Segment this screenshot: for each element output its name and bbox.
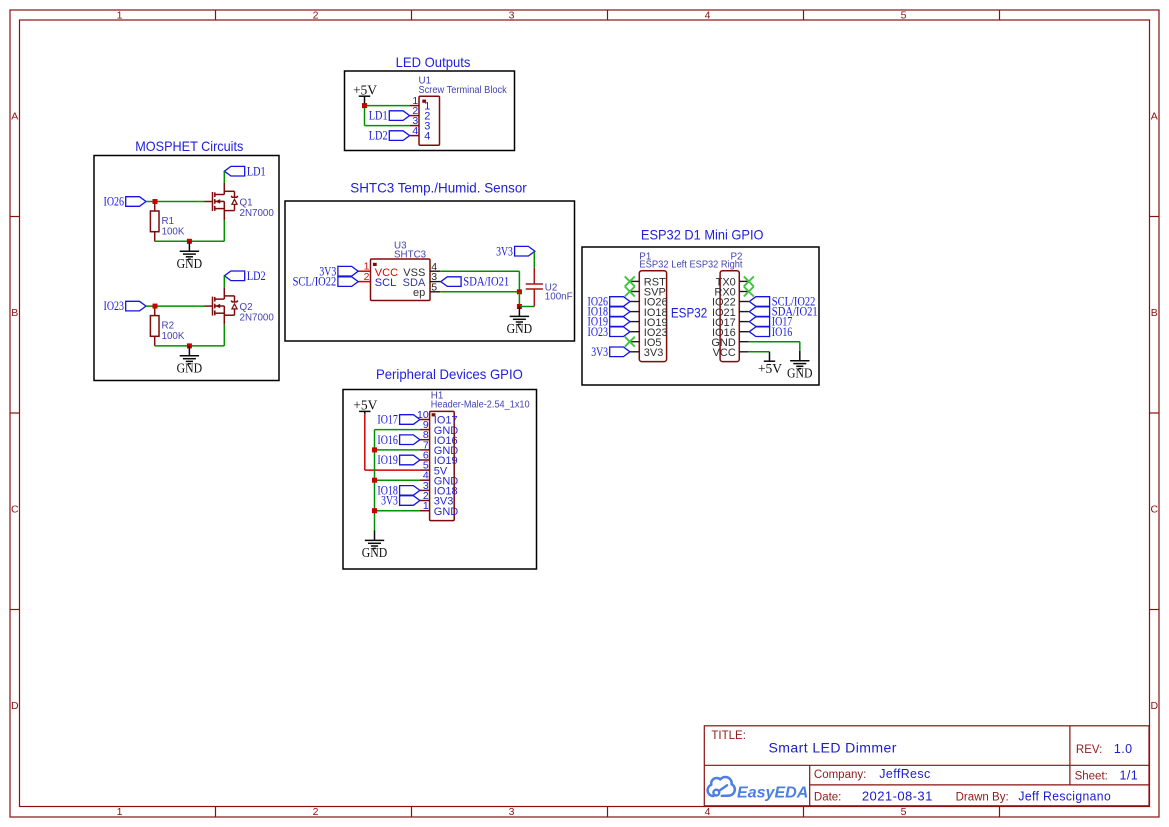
junction GND pin1 (372, 508, 377, 513)
section box Peripheral Devices GPIO (343, 390, 537, 570)
screw terminal U1 body (419, 96, 440, 145)
svg-text:LD1: LD1 (369, 109, 388, 123)
no-connect flags P2 TX0 RX0 (744, 276, 754, 296)
svg-text:5: 5 (901, 806, 907, 818)
rev label (1076, 744, 1102, 756)
svg-text:2N7000: 2N7000 (240, 313, 275, 324)
svg-text:ESP32 D1 Mini GPIO: ESP32 D1 Mini GPIO (641, 226, 764, 242)
U3 pin 1 VCC (358, 260, 398, 278)
net flag IO17 to H1 pin10 (377, 413, 420, 427)
svg-text:C: C (11, 503, 19, 515)
net flag IO23 (104, 299, 147, 313)
svg-text:100K: 100K (162, 227, 185, 238)
svg-text:Sheet:: Sheet: (1075, 770, 1108, 782)
svg-text:LD2: LD2 (247, 269, 266, 283)
power +5V (ESP32 VCC) (758, 352, 782, 376)
P1 pins (630, 277, 668, 359)
U3 pin 3 SDA (403, 271, 441, 289)
net flag 3V3 to capacitor (496, 244, 535, 258)
wire ground node to capacitor (519, 306, 534, 308)
capacitor U2 100nF (526, 268, 573, 307)
title block row line 1 (704, 764, 1149, 766)
H1 pins 10..1 (417, 409, 458, 518)
svg-text:Peripheral Devices GPIO: Peripheral Devices GPIO (376, 366, 523, 382)
wire +5V to U1 pin1 (365, 105, 410, 107)
svg-text:2: 2 (364, 271, 370, 283)
net flag IO16 to P2 (749, 325, 792, 339)
svg-text:IO23: IO23 (588, 325, 609, 339)
sheet value (1120, 768, 1139, 782)
wire GND to H1 pin9 (375, 429, 420, 431)
title block logo cell divider (809, 765, 811, 806)
svg-text:3V3: 3V3 (644, 347, 664, 359)
wire IO26 to gate (146, 201, 205, 203)
wire R1 to source (155, 240, 225, 242)
wire GND to H1 pin4 (375, 479, 420, 481)
net flag IO18 to H1 pin3 (377, 484, 420, 498)
gate pin Q2 (205, 305, 213, 307)
wire source down (223, 220, 225, 241)
svg-text:SHTC3 Temp./Humid. Sensor: SHTC3 Temp./Humid. Sensor (350, 180, 527, 196)
svg-text:+5V: +5V (353, 83, 377, 98)
svg-text:IO16: IO16 (772, 325, 793, 339)
svg-text:3: 3 (509, 806, 515, 818)
section title LED Outputs (396, 54, 471, 70)
svg-text:Date:: Date: (814, 791, 842, 803)
svg-text:TITLE:: TITLE: (711, 730, 746, 742)
no-connect flags P1 RST SVP IO5 (625, 276, 635, 346)
wire ep right (440, 291, 519, 293)
net flag IO23 to P1 (588, 325, 631, 339)
svg-text:3: 3 (509, 10, 515, 22)
junction GND pin4 (372, 478, 377, 483)
svg-text:5: 5 (901, 10, 907, 22)
company value (879, 767, 930, 781)
svg-text:JeffResc: JeffResc (879, 767, 930, 781)
ground (507, 307, 533, 337)
svg-text:IO17: IO17 (377, 413, 398, 427)
net flag 3V3 to P1 (591, 345, 630, 359)
svg-text:IO19: IO19 (377, 453, 398, 467)
wire down to ground node (518, 292, 520, 307)
date label (814, 791, 842, 803)
wire GND bus vertical (374, 430, 376, 531)
header H1 body (430, 411, 455, 520)
net flag SDA/IO21 on U3 SDA (441, 275, 509, 289)
wire GND down (799, 342, 801, 351)
junction ep node (517, 289, 522, 294)
wire +5V down (red) (364, 414, 366, 471)
svg-text:3V3: 3V3 (591, 345, 608, 359)
svg-text:IO26: IO26 (104, 195, 125, 209)
wire 3V3 down to capacitor (533, 252, 535, 268)
svg-text:5: 5 (431, 281, 437, 293)
section box SHTC3 sensor (285, 201, 575, 341)
svg-text:ESP32 Right: ESP32 Right (690, 260, 743, 271)
transistor Q1 2N7000 (213, 183, 275, 220)
svg-text:EasyEDA: EasyEDA (737, 785, 808, 802)
svg-text:C: C (1151, 503, 1159, 515)
wire GND to H1 pin7 (375, 449, 420, 451)
section title Peripheral Devices GPIO (376, 366, 523, 382)
svg-text:Screw Terminal Block: Screw Terminal Block (419, 85, 507, 96)
U3 pin 4 VSS (403, 261, 440, 279)
junction ground node (187, 239, 192, 244)
wire R2 to source (155, 345, 225, 347)
net flag IO18 to P1 (588, 305, 631, 319)
svg-text:4: 4 (412, 125, 418, 137)
junction GND pin7 (372, 447, 377, 452)
svg-text:1: 1 (423, 500, 429, 512)
svg-text:VCC: VCC (713, 347, 736, 359)
svg-text:Q1: Q1 (240, 198, 253, 209)
wire +5V to H1 pin5 (red) (365, 469, 420, 471)
drawn by value (1018, 789, 1111, 803)
wire source down (223, 325, 225, 346)
svg-text:100nF: 100nF (545, 292, 573, 303)
screw terminal U1 labels (419, 75, 507, 96)
section title SHTC3 Temp./Humid. Sensor (350, 180, 527, 196)
svg-text:R2: R2 (162, 321, 175, 332)
svg-text:1: 1 (117, 806, 123, 818)
junction at +5V node (362, 103, 367, 108)
net flag IO26 (104, 195, 147, 209)
ground (177, 241, 203, 270)
net flag IO19 to P1 (588, 315, 631, 329)
svg-text:D: D (11, 700, 19, 712)
svg-text:3V3: 3V3 (381, 494, 398, 508)
svg-text:4: 4 (705, 806, 711, 818)
P2 pins (711, 277, 748, 359)
svg-text:IO16: IO16 (377, 433, 398, 447)
junction ground node (187, 343, 192, 348)
svg-text:Drawn By:: Drawn By: (956, 791, 1009, 803)
svg-text:ESP32: ESP32 (671, 305, 707, 321)
svg-text:1.0: 1.0 (1114, 742, 1133, 756)
net flag SDA/IO21 to P2 (749, 305, 817, 319)
power +5V (LED outputs) (353, 83, 377, 106)
svg-text:GND: GND (177, 360, 203, 375)
wire VSS down (518, 271, 520, 292)
svg-text:1: 1 (117, 10, 123, 22)
ground (787, 351, 813, 381)
svg-text:4: 4 (424, 131, 430, 143)
svg-text:ESP32 Left: ESP32 Left (639, 260, 687, 271)
net flag LD2 (224, 269, 265, 283)
junction ground node (517, 304, 522, 309)
title block row line 2 (810, 784, 1149, 786)
R1 bottom lead (154, 232, 156, 242)
section title MOSPHET Circuits (135, 138, 243, 154)
svg-text:R1: R1 (162, 216, 175, 227)
svg-text:4: 4 (705, 10, 711, 22)
resistor R2 100K (150, 316, 184, 343)
title block rev column divider (1069, 726, 1071, 785)
svg-text:Header-Male-2.54_1x10: Header-Male-2.54_1x10 (431, 399, 530, 410)
resistor R1 100K (150, 211, 184, 238)
svg-text:LED Outputs: LED Outputs (396, 54, 471, 70)
title value Smart LED Dimmer (769, 740, 897, 756)
svg-text:Jeff Rescignano: Jeff Rescignano (1018, 789, 1111, 803)
svg-text:Smart LED Dimmer: Smart LED Dimmer (769, 740, 897, 756)
wire gate junction to R1 (154, 204, 156, 211)
net flag 3V3 to U3 VCC (319, 264, 358, 278)
svg-text:B: B (11, 307, 18, 319)
section box MOSPHET Circuits (94, 156, 279, 381)
wire LD1 to drain (223, 171, 225, 183)
junction gate node IO23 (153, 304, 158, 309)
U3 pin 2 SCL (358, 271, 396, 289)
header P1 labels (639, 251, 687, 270)
label ESP32 (671, 305, 707, 321)
section box ESP32 D1 Mini GPIO (582, 247, 819, 385)
ground (177, 346, 203, 376)
svg-text:+5V: +5V (758, 361, 782, 376)
net flag SCL/IO22 to P2 (749, 295, 815, 309)
svg-text:1/1: 1/1 (1120, 768, 1139, 782)
wire LD2 to drain (223, 276, 225, 288)
power +5V (peripheral) (353, 397, 377, 414)
company label (814, 769, 866, 781)
svg-text:+5V: +5V (353, 397, 377, 412)
net flag LD1 (224, 164, 265, 178)
U1 pins 1-4 (410, 95, 431, 143)
net flag IO17 to P2 (749, 315, 792, 329)
svg-text:A: A (11, 110, 18, 122)
svg-text:3V3: 3V3 (496, 244, 513, 258)
svg-text:LD2: LD2 (369, 129, 388, 143)
svg-text:REV:: REV: (1076, 744, 1102, 756)
svg-text:SCL: SCL (375, 277, 396, 289)
transistor Q2 2N7000 (213, 288, 275, 325)
svg-text:GND: GND (362, 545, 388, 560)
section box LED Outputs (345, 71, 515, 151)
svg-text:SDA/IO21: SDA/IO21 (463, 275, 509, 289)
header P1 body (639, 271, 666, 362)
net flag SCL/IO22 to U3 SCL (293, 275, 359, 289)
junction gate node IO26 (153, 199, 158, 204)
wire +5V down (364, 106, 366, 126)
svg-text:2: 2 (313, 806, 319, 818)
svg-text:GND: GND (177, 256, 203, 271)
net flag IO16 to H1 pin8 (377, 433, 420, 447)
svg-text:GND: GND (507, 321, 533, 336)
svg-text:2N7000: 2N7000 (240, 208, 275, 219)
wire gate junction to R2 (154, 308, 156, 315)
net flag IO19 to H1 pin6 (377, 453, 420, 467)
drawn by label (956, 791, 1009, 803)
svg-text:MOSPHET Circuits: MOSPHET Circuits (135, 138, 243, 154)
net flag IO26 to P1 (588, 295, 631, 309)
svg-text:LD1: LD1 (247, 164, 266, 178)
svg-text:100K: 100K (162, 331, 185, 342)
svg-text:2021-08-31: 2021-08-31 (862, 789, 933, 803)
wire GND to H1 pin1 (375, 510, 420, 512)
date value (862, 789, 933, 803)
sensor U3 body (371, 259, 431, 301)
svg-text:A: A (1151, 110, 1158, 122)
svg-text:D: D (1151, 700, 1159, 712)
svg-text:B: B (1151, 307, 1158, 319)
U3 pin 5 ep (413, 281, 440, 299)
header P2 body (720, 271, 739, 362)
sensor U3 labels (394, 241, 427, 261)
rev value (1114, 742, 1133, 756)
net flag 3V3 to H1 pin2 (381, 494, 420, 508)
sheet label (1075, 770, 1108, 782)
section title ESP32 D1 Mini GPIO (641, 226, 764, 242)
header P2 labels (690, 251, 743, 270)
net flag LD1 to U1 pin2 (369, 109, 410, 123)
wire VCC right (749, 351, 770, 353)
svg-text:SCL/IO22: SCL/IO22 (293, 275, 337, 289)
svg-text:GND: GND (787, 365, 813, 380)
EasyEDA logo cloud (708, 777, 735, 796)
wire GND right (749, 341, 800, 343)
net flag LD2 to U1 pin4 (369, 129, 410, 143)
svg-text:IO23: IO23 (104, 299, 125, 313)
header H1 labels (431, 391, 530, 411)
wire IO23 to gate (146, 305, 205, 307)
svg-text:2: 2 (313, 10, 319, 22)
EasyEDA logo text (737, 785, 808, 802)
title block outline (704, 726, 1149, 806)
gate pin Q1 (205, 201, 213, 203)
title label (711, 730, 746, 742)
svg-text:Company:: Company: (814, 769, 866, 781)
wire to U1 pin3 (365, 125, 410, 127)
R2 bottom lead (154, 336, 156, 346)
svg-text:GND: GND (434, 506, 459, 518)
svg-text:ep: ep (413, 287, 425, 299)
wire VSS right (440, 270, 519, 272)
ground (362, 531, 388, 561)
svg-text:Q2: Q2 (240, 302, 253, 313)
